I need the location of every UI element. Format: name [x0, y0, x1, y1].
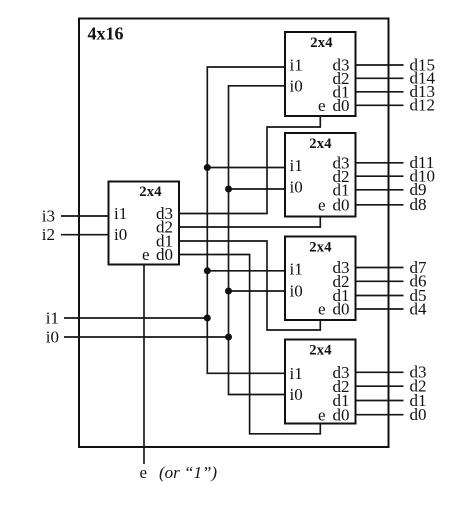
svg-text:(or “1”): (or “1”) [159, 463, 217, 482]
svg-text:2x4: 2x4 [139, 184, 162, 200]
svg-text:d0: d0 [333, 195, 350, 214]
svg-text:d0: d0 [156, 245, 173, 264]
junction i1/U3 [204, 267, 211, 274]
wire output d0 [356, 414, 404, 416]
wire input i3 [61, 215, 109, 217]
wire i0 branch to U2 [229, 188, 286, 190]
wire i0 bus vertical [229, 86, 286, 395]
svg-text:i1: i1 [290, 56, 303, 75]
svg-text:2x4: 2x4 [309, 240, 332, 256]
svg-text:i0: i0 [46, 327, 59, 346]
svg-text:i0: i0 [290, 385, 303, 404]
svg-text:i1: i1 [114, 204, 127, 223]
decoder U4 (bottom 2x4) [285, 340, 356, 425]
wire output d8 [356, 204, 404, 206]
junction i0 feed [225, 334, 232, 341]
junction i1 feed [204, 315, 211, 322]
svg-text:d12: d12 [410, 96, 436, 115]
wire input i0 [64, 336, 229, 338]
svg-text:i1: i1 [290, 156, 303, 175]
svg-text:d0: d0 [410, 405, 427, 424]
wire output d9 [356, 189, 404, 191]
svg-text:2x4: 2x4 [309, 136, 332, 152]
wire output d11 [356, 162, 404, 164]
wire output d14 [356, 77, 404, 79]
wire output d3 [356, 371, 404, 373]
wire output d7 [356, 267, 404, 269]
decoder U1 (top-right 2x4) [285, 32, 356, 116]
wire output d10 [356, 175, 404, 177]
wire output d12 [356, 104, 404, 106]
svg-text:e: e [318, 96, 326, 115]
svg-text:d0: d0 [333, 300, 350, 319]
wire output d2 [356, 385, 404, 387]
outer enclosure box 4x16 [79, 19, 389, 448]
wire i1 branch to U2 [207, 167, 285, 169]
svg-text:e: e [318, 195, 326, 214]
svg-text:i0: i0 [114, 225, 127, 244]
wire i1 bus vertical [207, 67, 285, 373]
svg-text:e: e [318, 405, 326, 424]
svg-text:e: e [142, 245, 150, 264]
svg-text:i1: i1 [290, 364, 303, 383]
svg-text:i2: i2 [42, 225, 55, 244]
svg-text:4x16: 4x16 [88, 24, 124, 44]
svg-text:d0: d0 [333, 96, 350, 115]
decoder U0 (left 2x4) [109, 182, 180, 265]
wire input i1 [64, 317, 207, 319]
wire output d15 [356, 64, 404, 66]
svg-text:i3: i3 [42, 206, 55, 225]
wire output d1 [356, 400, 404, 402]
wire U0 d3 to U1 e [179, 116, 320, 214]
junction i0/U2 [225, 186, 232, 193]
wire output d4 [356, 308, 404, 310]
wire i1 branch to U3 [207, 270, 285, 272]
svg-text:i1: i1 [290, 259, 303, 278]
svg-text:d8: d8 [410, 195, 427, 214]
wire i0 branch to U3 [229, 290, 286, 292]
wire U0 d2 to U2 e [179, 217, 320, 228]
svg-text:e: e [139, 463, 147, 482]
wire input i2 [61, 234, 109, 236]
decoder U2 (second 2x4) [285, 133, 356, 217]
svg-text:d0: d0 [333, 405, 350, 424]
svg-text:i0: i0 [290, 76, 303, 95]
svg-text:i1: i1 [46, 308, 59, 327]
junction i0/U3 [225, 288, 232, 295]
wire U0 d1 to U3 e [179, 241, 320, 330]
junction i1/U2 [204, 164, 211, 171]
decoder U3 (third 2x4) [285, 237, 356, 321]
wire output d6 [356, 280, 404, 282]
wire U0 d0 to U4 e [179, 255, 320, 434]
svg-text:i0: i0 [290, 282, 303, 301]
svg-text:i0: i0 [290, 178, 303, 197]
wire output d13 [356, 91, 404, 93]
wire output d5 [356, 295, 404, 297]
svg-text:2x4: 2x4 [309, 343, 332, 359]
svg-text:e: e [318, 300, 326, 319]
svg-text:d4: d4 [410, 299, 428, 318]
wire U0 e enable [143, 265, 145, 465]
svg-text:2x4: 2x4 [310, 35, 333, 51]
